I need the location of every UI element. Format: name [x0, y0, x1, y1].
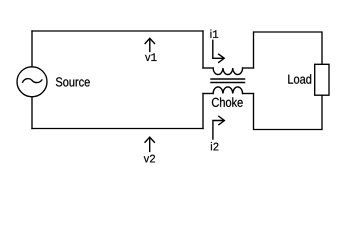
source sine symbol [23, 79, 42, 83]
label v1 [145, 53, 157, 61]
wire: choke left vertical bottom (bottom rail up to L2) [202, 94, 204, 129]
wire: source bottom lead down to bottom rail [31, 97, 33, 129]
label i1 [210, 29, 218, 37]
inductor L2 (bottom choke winding) left lead [203, 93, 213, 95]
wire: L1 output up and across to load [254, 32, 323, 68]
label i2 [211, 142, 219, 150]
wire: load bottom back to L2 output [254, 94, 323, 130]
inductor L1 right lead [243, 67, 254, 69]
inductor L1 (top choke winding) left lead [203, 67, 213, 69]
arrow i1 (elbow arrow into L1) [213, 40, 224, 62]
wire: bottom rail from source to choke input [32, 128, 203, 130]
inductor L1 bumps [213, 68, 242, 75]
arrow v2 (up arrow under bottom rail) [145, 137, 154, 151]
wire: source top lead up to top rail [31, 31, 33, 67]
label v2 [144, 155, 155, 163]
resistor load body [315, 64, 329, 95]
label Source [56, 77, 90, 86]
source V1 (AC source circle) [17, 67, 47, 97]
label Choke [212, 97, 243, 107]
arrow v1 (up arrow under top rail) [145, 38, 154, 51]
label Load [288, 74, 311, 84]
choke core line upper [211, 78, 245, 80]
inductor L2 right lead [243, 93, 254, 95]
wire: top rail from source to choke input [32, 30, 203, 32]
inductor L2 bumps [213, 87, 242, 94]
wire: choke left vertical top (top rail down to L1) [202, 31, 204, 68]
arrow i2 (elbow arrow into L2) [213, 116, 225, 139]
choke core line lower [211, 82, 245, 84]
